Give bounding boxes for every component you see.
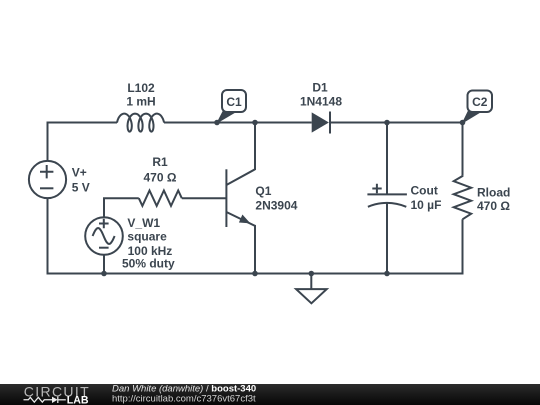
svg-text:1 mH: 1 mH xyxy=(126,95,155,109)
svg-text:Rload: Rload xyxy=(477,186,510,200)
svg-text:1N4148: 1N4148 xyxy=(300,94,342,108)
svg-text:L102: L102 xyxy=(127,81,155,95)
ground triangle xyxy=(296,289,327,303)
node C1 box xyxy=(222,90,246,112)
svg-text:470 Ω: 470 Ω xyxy=(144,171,177,185)
V1 plus sign xyxy=(40,165,53,178)
logo diode symbol xyxy=(52,397,58,403)
junction dot Cout top xyxy=(384,120,390,126)
wire R1 to Q1 base xyxy=(182,197,227,199)
V_W1 minus sign xyxy=(99,247,109,249)
logo squiggle resistor xyxy=(24,397,53,402)
svg-text:2N3904: 2N3904 xyxy=(255,199,297,213)
junction dot emitter bottom xyxy=(252,271,258,277)
svg-text:Q1: Q1 xyxy=(255,184,271,198)
transistor Q1 base bar xyxy=(225,169,227,227)
svg-text:R1: R1 xyxy=(152,155,168,169)
junction dot collector xyxy=(252,120,258,126)
Cout top plate xyxy=(367,193,407,195)
Q1 emitter arrow xyxy=(239,215,251,224)
junction dot V_W1 bottom xyxy=(101,271,107,277)
V_W1 plus sign xyxy=(99,219,109,229)
svg-text:5 V: 5 V xyxy=(72,181,90,195)
resistor Rload xyxy=(454,176,472,220)
wire V_W1 bottom xyxy=(103,255,105,274)
junction dot Cout bottom xyxy=(384,271,390,277)
Q1 collector xyxy=(226,123,255,186)
node C1 pointer wedge xyxy=(216,108,236,125)
svg-text:C2: C2 xyxy=(472,95,488,109)
svg-text:C1: C1 xyxy=(226,95,242,109)
junction dot C2 xyxy=(460,120,466,126)
svg-text:V_W1: V_W1 xyxy=(127,216,160,230)
diode D1 triangle xyxy=(312,112,329,132)
junction dot ground xyxy=(309,271,315,277)
svg-text:Cout: Cout xyxy=(411,184,438,198)
V1 minus sign xyxy=(40,187,53,189)
svg-text:V+: V+ xyxy=(72,166,87,180)
Cout plus sign xyxy=(372,184,381,193)
V_W1 sine wave xyxy=(93,228,115,244)
svg-text:50% duty: 50% duty xyxy=(122,257,175,271)
voltage source V1 circle xyxy=(29,161,66,198)
wire left vertical bottom xyxy=(48,198,463,273)
source V_W1 circle xyxy=(85,217,123,255)
capacitor Cout top wire xyxy=(386,123,388,195)
node C2 box xyxy=(468,91,493,113)
wire V_W1 to R1 xyxy=(104,198,139,217)
wire top mid xyxy=(164,122,312,124)
Q1 emitter xyxy=(226,212,255,274)
footer bar xyxy=(0,384,540,405)
svg-text:10 µF: 10 µF xyxy=(411,198,442,212)
svg-text:470 Ω: 470 Ω xyxy=(477,199,510,213)
junction dot C1 xyxy=(214,120,220,126)
wire top right xyxy=(330,123,463,176)
resistor R1 xyxy=(139,191,182,206)
Cout bottom plate arc xyxy=(368,203,406,207)
node C2 pointer wedge xyxy=(462,108,481,125)
svg-text:D1: D1 xyxy=(312,80,328,94)
wire left vertical top xyxy=(48,123,118,161)
ground stub xyxy=(310,274,312,290)
diode D1 cathode bar xyxy=(329,112,331,134)
Cout bottom wire xyxy=(386,203,388,274)
svg-text:square: square xyxy=(127,230,167,244)
inductor L102 xyxy=(117,114,164,132)
svg-text:LAB: LAB xyxy=(67,395,89,405)
svg-text:http://circuitlab.com/c7376vt6: http://circuitlab.com/c7376vt67cf3t xyxy=(112,394,256,405)
